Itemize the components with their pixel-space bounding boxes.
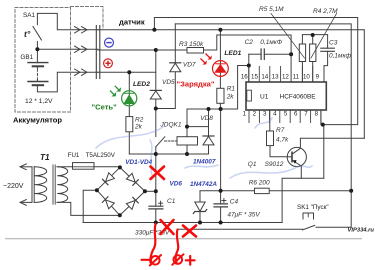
capacitor C1 plates bbox=[149, 206, 163, 209]
C3 bottom lead to pin9 bbox=[324, 51, 328, 82]
svg-text:HCF4060BE: HCF4060BE bbox=[280, 93, 316, 100]
fuse FU1 box bbox=[73, 163, 95, 170]
R4 top stub bbox=[312, 35, 314, 44]
bridge diode VD2 (top-right edge) bbox=[126, 173, 139, 186]
transformer secondary arcs bbox=[57, 167, 68, 203]
red wavy stroke to plus terminal bbox=[176, 230, 179, 263]
chip bottom pin lines bbox=[249, 110, 321, 123]
svg-text:2k: 2k bbox=[134, 123, 143, 130]
svg-text:47μF * 35V: 47μF * 35V bbox=[227, 212, 260, 219]
relay JDQK1 coil box bbox=[177, 137, 198, 145]
R7 lead pin4 bbox=[269, 110, 271, 131]
bridge right vertex wire to C1 node bbox=[145, 190, 156, 192]
rail3 right riser (wire1 down to Q1 collector wire) bbox=[363, 30, 365, 139]
resistor R7 box bbox=[267, 131, 274, 146]
R2 bottom lead bbox=[128, 132, 130, 154]
relay coil bottom lead bbox=[186, 145, 188, 154]
diode VD7 bbox=[170, 62, 181, 64]
pin16 line with C2 node bbox=[248, 54, 250, 82]
C1 plus sign bbox=[159, 201, 163, 205]
svg-text:4,7k: 4,7k bbox=[276, 137, 289, 144]
wire R1 bottom rail to pin16 bbox=[187, 66, 249, 110]
R4 bottom to pin10 bbox=[312, 62, 314, 83]
svg-text:S9012: S9012 bbox=[265, 161, 284, 168]
capacitor C2 plates bbox=[261, 49, 264, 59]
wire coil node to VD8 line bbox=[187, 126, 209, 128]
red X on bottom rail right of C1 bbox=[161, 220, 174, 234]
resistor R2 box bbox=[126, 117, 133, 132]
transformer primary top lead bbox=[20, 166, 32, 168]
svg-text:SK1 "Пуск": SK1 "Пуск" bbox=[297, 204, 329, 211]
svg-text:5: 5 bbox=[284, 110, 288, 117]
arrow chevrons wire3 bbox=[75, 69, 88, 75]
resistor R5 box bbox=[299, 44, 305, 62]
red phase symbol right bbox=[174, 255, 183, 264]
svg-text:C4: C4 bbox=[230, 199, 239, 206]
pushbutton SK1 actuator bbox=[303, 213, 314, 219]
VD8 top lead from R1-wire bbox=[208, 109, 210, 136]
wire zener node to R6 bbox=[200, 190, 255, 192]
svg-text:R7: R7 bbox=[276, 127, 285, 134]
svg-text:10: 10 bbox=[303, 74, 310, 81]
wire R3 right to rail4 riser bbox=[204, 35, 217, 50]
red plus sign bbox=[186, 256, 195, 265]
red hand annotations bbox=[142, 167, 197, 266]
R5 top stub bbox=[301, 35, 303, 44]
pin8 vertical down bbox=[323, 125, 324, 179]
wire2 to R3 bbox=[98, 49, 187, 51]
R5 leader line bbox=[271, 14, 305, 59]
chip notch bbox=[247, 90, 252, 101]
sensor connector double bars bbox=[96, 26, 100, 79]
svg-text:VIР334.ru: VIР334.ru bbox=[348, 228, 375, 234]
rail2 from VD7 riser across top to SK1 bbox=[175, 24, 351, 227]
svg-text:C2: C2 bbox=[245, 39, 254, 46]
C1 bottom lead bbox=[155, 209, 157, 223]
resistor R6 box bbox=[255, 188, 270, 193]
svg-text:1: 1 bbox=[243, 110, 247, 117]
svg-text:1N4007: 1N4007 bbox=[193, 159, 216, 166]
R6 right lead to rail2 vertical bbox=[269, 190, 351, 192]
svg-text:"Зарядка": "Зарядка" bbox=[177, 80, 215, 89]
C4 top lead bbox=[220, 191, 222, 204]
Q1 collector up and right to rail3 riser bbox=[300, 138, 364, 148]
sensor plus symbol bbox=[104, 59, 113, 68]
bridge diode VD4 (bottom-right edge) bbox=[126, 197, 139, 210]
svg-text:"Сеть": "Сеть" bbox=[92, 103, 118, 112]
svg-text:R1: R1 bbox=[227, 85, 236, 92]
dashed sensor-cable extension bbox=[71, 7, 104, 30]
transformer primary bottom lead bbox=[20, 201, 32, 203]
VD5 vertical from wire2 node bbox=[155, 50, 157, 90]
svg-text:8: 8 bbox=[315, 110, 319, 117]
svg-text:VD8: VD8 bbox=[200, 115, 213, 122]
svg-text:Аккумулятор: Аккумулятор bbox=[13, 116, 62, 125]
capacitor C3 plates bbox=[321, 48, 335, 51]
central V+ vertical R1-wire down to C4 node bbox=[220, 109, 222, 191]
zener VD6 bbox=[195, 202, 205, 211]
wire3 sensor plus-wire bbox=[71, 71, 99, 73]
R1 bottom lead bbox=[219, 103, 221, 109]
svg-text:GB1: GB1 bbox=[20, 54, 33, 61]
transformer lead arrows bbox=[20, 164, 26, 170]
bridge left vertex to bottom rail bbox=[83, 190, 97, 222]
wire switch bottom to GB1 node bbox=[36, 42, 38, 50]
SK1 right wire bbox=[316, 226, 351, 228]
svg-text:12 * 1,2V: 12 * 1,2V bbox=[25, 98, 53, 105]
svg-text:VD1-VD4: VD1-VD4 bbox=[125, 159, 152, 166]
transformer T1 primary double line bbox=[32, 167, 34, 203]
resistor R4 box bbox=[310, 44, 316, 62]
svg-text:9: 9 bbox=[316, 74, 320, 81]
red phase symbol left bbox=[151, 256, 160, 265]
transistor Q1 bbox=[287, 147, 306, 166]
diode VD5 bbox=[150, 89, 161, 91]
SK1 left long wire bbox=[177, 228, 303, 230]
battery box SA1 switch wiring bbox=[37, 13, 70, 29]
wire2 sensor minus-wire bbox=[71, 48, 99, 50]
wire R5 R4 C3 tops bbox=[302, 34, 327, 36]
svg-text:R6 200: R6 200 bbox=[249, 180, 270, 187]
relay dashed actuator link bbox=[165, 140, 178, 142]
diode VD8 bbox=[203, 135, 214, 137]
capacitor C4 plates bbox=[214, 204, 227, 207]
R7 bottom to Q1 base bbox=[270, 146, 287, 157]
light blue scribble watermarks bbox=[96, 118, 312, 178]
wire1 rail (t-net) across top bbox=[98, 29, 364, 31]
switch SA1 blade bbox=[33, 27, 42, 41]
svg-text:0,1мкф: 0,1мкф bbox=[329, 53, 352, 60]
R4 leader line bbox=[311, 14, 337, 59]
relay coil top lead riser bbox=[186, 109, 188, 137]
chip top pin lines bbox=[249, 66, 324, 83]
resistor R1 box bbox=[217, 88, 224, 103]
svg-text:6: 6 bbox=[294, 110, 298, 117]
separator line bottom bbox=[5, 238, 362, 240]
relay contact lower lead bbox=[155, 147, 157, 155]
bottom rail bbox=[83, 222, 282, 224]
svg-text:R5 5,1M: R5 5,1M bbox=[259, 6, 284, 13]
battery cell divider dash-dot bbox=[36, 69, 38, 79]
VD7 bottom lead to node bbox=[156, 72, 176, 109]
zener VD6 bottom lead bbox=[199, 212, 201, 223]
secondary top lead to FU1 to bridge top bbox=[57, 166, 120, 168]
resistor R3 box bbox=[187, 48, 204, 54]
svg-text:VD6: VD6 bbox=[170, 181, 183, 188]
bridge diode VD1 (top-left edge) bbox=[102, 172, 115, 185]
svg-text:~220V: ~220V bbox=[3, 183, 24, 190]
rail1 from wire1 up and right to pin8 bbox=[154, 18, 357, 125]
transformer core lines bbox=[53, 165, 55, 204]
svg-text:3: 3 bbox=[263, 110, 267, 117]
battery GB1 leads bbox=[36, 49, 38, 68]
Q1 emitter down to y178 wire bbox=[300, 166, 302, 178]
svg-text:C3: C3 bbox=[329, 40, 338, 47]
sensor minus symbol bbox=[105, 38, 114, 47]
C4 bottom lead bbox=[220, 207, 222, 223]
bridge edge bottom-right bbox=[120, 191, 145, 215]
svg-text:13: 13 bbox=[272, 74, 279, 81]
svg-text:t°: t° bbox=[24, 29, 31, 39]
battery GB1 plates bbox=[28, 62, 48, 64]
C2 right lead bbox=[264, 53, 291, 55]
bridge edge top-left bbox=[97, 167, 120, 190]
C4 plus sign bbox=[222, 199, 226, 203]
svg-text:R4 2,7M: R4 2,7M bbox=[313, 8, 338, 15]
relay contact blade bbox=[156, 137, 165, 147]
LED2 branch from wire3 bbox=[128, 72, 130, 116]
VD7 riser crossing wire2 bbox=[174, 24, 176, 63]
svg-text:FU1: FU1 bbox=[68, 152, 80, 159]
svg-text:7: 7 bbox=[304, 110, 308, 117]
svg-text:T5AL250V: T5AL250V bbox=[86, 152, 116, 159]
VD5 bottom lead to node bbox=[155, 99, 157, 109]
relay contact upper lead bbox=[155, 109, 157, 137]
svg-text:2: 2 bbox=[253, 110, 257, 117]
svg-text:LED1: LED1 bbox=[224, 50, 241, 57]
svg-text:11: 11 bbox=[293, 74, 300, 81]
svg-text:14: 14 bbox=[261, 74, 268, 81]
pin8 wire to dot bbox=[321, 110, 323, 125]
svg-text:0,1мкФ: 0,1мкФ bbox=[260, 39, 282, 46]
LED1 branch from wire1 bbox=[219, 30, 221, 89]
C2 left lead to pin16 node bbox=[249, 53, 261, 55]
svg-text:R3 150k: R3 150k bbox=[179, 41, 204, 48]
svg-text:VD5: VD5 bbox=[162, 79, 175, 86]
svg-text:4: 4 bbox=[273, 110, 277, 117]
svg-text:16: 16 bbox=[241, 74, 248, 81]
red minus sign bbox=[142, 259, 150, 261]
wire y178 to SK1 riser bbox=[282, 178, 324, 222]
svg-text:U1: U1 bbox=[260, 93, 269, 100]
crossed vertical relay node to C1 node bbox=[155, 154, 157, 191]
rail4 R3 to pin12 bbox=[217, 35, 291, 82]
SK1 blade bbox=[303, 225, 315, 229]
chip U1 body bbox=[246, 82, 326, 110]
LED1 red indicator bbox=[201, 54, 229, 77]
svg-text:2k: 2k bbox=[226, 93, 235, 100]
svg-text:SA1: SA1 bbox=[23, 12, 36, 19]
wire GB1 node to box edge (wire2 out) bbox=[37, 48, 70, 50]
svg-text:LED2: LED2 bbox=[133, 81, 150, 88]
transformer primary arcs bbox=[34, 167, 47, 203]
secondary bottom lead to bridge bottom bbox=[57, 202, 120, 215]
svg-text:1N4742A: 1N4742A bbox=[190, 181, 217, 188]
svg-text:C1: C1 bbox=[167, 198, 176, 205]
svg-text:датчик: датчик bbox=[119, 18, 145, 27]
svg-text:VD7: VD7 bbox=[183, 62, 196, 69]
bridge diode VD3 (left-bottom edge) bbox=[102, 196, 115, 209]
LED2 green indicator bbox=[110, 86, 137, 106]
bridge edge left-bottom bbox=[97, 190, 120, 215]
arrow chevrons wire1 bbox=[75, 27, 88, 33]
svg-text:T1: T1 bbox=[40, 153, 50, 162]
arrow chevrons wire2 bbox=[75, 46, 88, 52]
C3 top lead bbox=[327, 35, 329, 48]
wire relay bottom (R2 corner to VD8 corner) bbox=[129, 145, 208, 154]
wire3 corner into VD5 line bbox=[98, 71, 156, 73]
red X on SK1 wire left end bbox=[183, 226, 196, 237]
C1 top lead bbox=[155, 191, 157, 206]
wire1 sensor t-wire bbox=[71, 29, 99, 31]
red wavy stroke to minus terminal bbox=[150, 224, 155, 263]
bridge edge top-right bbox=[120, 167, 145, 191]
svg-text:12: 12 bbox=[282, 74, 289, 81]
svg-text:15: 15 bbox=[251, 74, 258, 81]
svg-text:Q1: Q1 bbox=[248, 161, 257, 168]
battery dashed box bbox=[15, 8, 71, 113]
zener VD6 top lead bbox=[199, 191, 201, 202]
red X on relay-bridge wire bbox=[151, 167, 165, 180]
R5 bottom to pin11 bbox=[301, 62, 303, 83]
